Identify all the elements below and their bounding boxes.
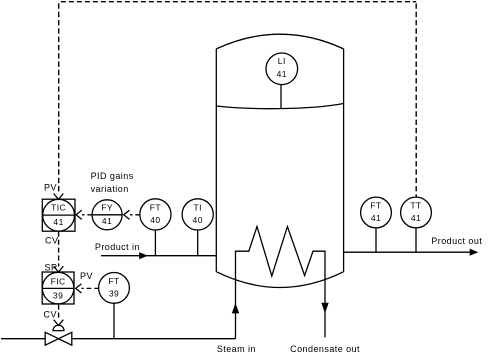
instrument TI 40 (182, 199, 213, 230)
pipe: steam line left of valve (1, 338, 45, 340)
instrument FT 39 (99, 273, 130, 304)
svg-text:40: 40 (193, 215, 203, 225)
wire: top dashed signal TT41 to TIC41 horizontal (59, 1, 416, 3)
valve actuator (diaphragm) (53, 325, 64, 331)
svg-text:FT: FT (150, 202, 161, 212)
svg-text:CV: CV (45, 236, 58, 246)
pipe: product out line (344, 251, 471, 253)
svg-text:41: 41 (277, 69, 287, 79)
svg-text:41: 41 (411, 213, 421, 223)
wire: dashed FT39 to FIC39 with arrowhead (82, 287, 99, 289)
wire: dashed cascade TIC41 to FIC39 (58, 232, 60, 267)
svg-text:FY: FY (101, 202, 113, 212)
svg-text:variation: variation (91, 184, 129, 194)
svg-text:PV: PV (44, 182, 57, 192)
arrowhead product in (139, 252, 148, 259)
svg-text:Steam in: Steam in (217, 344, 256, 354)
instrument TT 41 (401, 197, 432, 228)
wire: left vertical dashed signal down to TIC41 (58, 3, 60, 193)
control valve body (bowtie) (45, 332, 58, 345)
instrument FY 41 (92, 200, 122, 230)
svg-text:41: 41 (53, 217, 63, 227)
wire: FT39 stub to steam line (113, 303, 115, 339)
svg-text:TI: TI (193, 202, 201, 212)
svg-text:40: 40 (150, 215, 160, 225)
instrument FT 41 (361, 197, 392, 228)
svg-text:Product out: Product out (431, 236, 482, 246)
arrowhead into TIC41 PV (54, 194, 64, 200)
svg-text:LI: LI (278, 56, 286, 66)
liquid level wavy line (216, 104, 343, 109)
svg-text:TIC: TIC (51, 203, 66, 213)
svg-text:FT: FT (108, 276, 119, 286)
instrument FIC 39 (42, 272, 74, 304)
svg-text:PV: PV (80, 271, 93, 281)
wire: dashed FT40 to FY41 with arrowhead (130, 214, 140, 216)
wire: right vertical dashed signal from TT41 up (415, 3, 417, 197)
svg-text:41: 41 (371, 213, 381, 223)
instrument FT 40 (140, 199, 171, 230)
wire: LI41 stub to liquid level (280, 84, 282, 109)
svg-text:41: 41 (102, 216, 112, 226)
svg-text:Product in: Product in (95, 242, 140, 252)
svg-text:FIC: FIC (51, 277, 66, 287)
heating coil with steam inlet and condensate outlet legs (236, 227, 326, 339)
vessel left wall (215, 49, 217, 272)
pipe: steam line right of valve (72, 338, 236, 340)
svg-text:39: 39 (53, 290, 63, 300)
vessel dome top (216, 34, 343, 49)
instrument LI 41 (266, 53, 298, 85)
svg-text:TT: TT (410, 201, 421, 211)
wire: TI40 stub to product line (197, 230, 199, 256)
arrowhead condensate out (down) (321, 303, 328, 313)
pipe: product in line (101, 255, 216, 257)
vessel right wall (343, 49, 345, 272)
vessel dished bottom (216, 272, 343, 288)
arrowhead into FIC39 SP (54, 266, 64, 272)
svg-text:CV: CV (44, 309, 57, 319)
wire: TT41 stub to product line (415, 228, 417, 253)
svg-text:39: 39 (109, 289, 119, 299)
svg-text:SP: SP (45, 262, 58, 272)
instrument TIC 41 (42, 199, 75, 231)
arrowhead steam in (up) (232, 303, 239, 313)
wire: dashed FIC39 to valve actuator (58, 305, 60, 320)
wire: dashed FY41 to TIC41 with arrowhead (82, 214, 92, 216)
arrowhead product out (470, 249, 479, 256)
arrowhead into valve (54, 320, 64, 326)
wire: FT41 stub to product line (375, 228, 377, 253)
wire: FT40 stub to product line (154, 230, 156, 256)
svg-text:Condensate out: Condensate out (290, 344, 360, 354)
svg-text:FT: FT (370, 201, 381, 211)
svg-text:PID gains: PID gains (91, 171, 134, 181)
